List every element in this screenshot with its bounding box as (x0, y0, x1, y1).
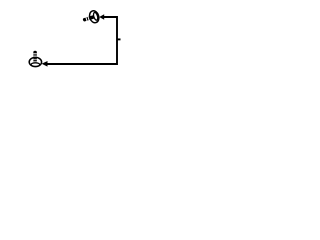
bulb E2 (bottom, threaded base pointing up) (29, 51, 41, 67)
node A (branch stub on vertical wire) (117, 38, 121, 40)
arrowhead to bulb E2 (42, 61, 48, 67)
arrowhead to bulb E1 (99, 14, 104, 19)
wire (47, 17, 117, 64)
bulb E1 (top, threaded base pointing lower-left) (81, 10, 100, 26)
